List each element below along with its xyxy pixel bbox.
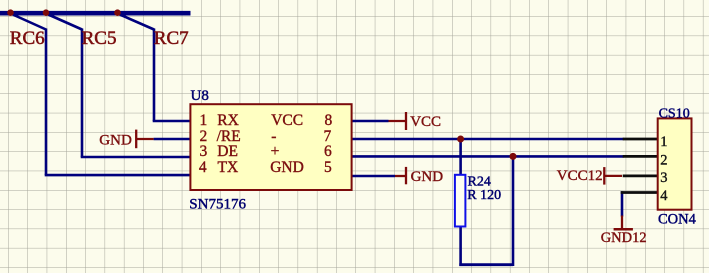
svg-text:1: 1 — [660, 134, 667, 150]
svg-text:DE: DE — [217, 143, 238, 160]
svg-text:VCC: VCC — [410, 114, 441, 130]
svg-text:RC6: RC6 — [10, 28, 45, 49]
svg-text:R 120: R 120 — [467, 188, 501, 203]
svg-text:VCC12: VCC12 — [557, 168, 603, 184]
svg-text:8: 8 — [325, 112, 333, 129]
svg-text:3: 3 — [660, 170, 667, 186]
svg-text:TX: TX — [218, 159, 239, 176]
svg-text:SN75176: SN75176 — [189, 196, 246, 212]
svg-text:2: 2 — [660, 152, 667, 168]
svg-text:RC7: RC7 — [154, 28, 189, 49]
svg-text:CS10: CS10 — [659, 107, 690, 122]
svg-text:4: 4 — [199, 159, 207, 176]
svg-text:RC5: RC5 — [82, 28, 117, 49]
svg-text:GND: GND — [411, 169, 444, 185]
svg-text:GND: GND — [99, 133, 132, 149]
svg-text:4: 4 — [660, 188, 668, 204]
svg-text:GND: GND — [270, 159, 304, 176]
svg-text:VCC: VCC — [271, 112, 303, 129]
svg-text:U8: U8 — [191, 88, 209, 104]
svg-text:6: 6 — [324, 143, 332, 160]
svg-text:GND12: GND12 — [601, 230, 647, 246]
svg-text:RX: RX — [217, 112, 239, 129]
svg-text:5: 5 — [324, 159, 332, 176]
svg-text:1: 1 — [200, 112, 208, 129]
svg-text:CON4: CON4 — [658, 212, 697, 228]
svg-text:3: 3 — [200, 143, 208, 160]
svg-text:+: + — [271, 143, 280, 160]
